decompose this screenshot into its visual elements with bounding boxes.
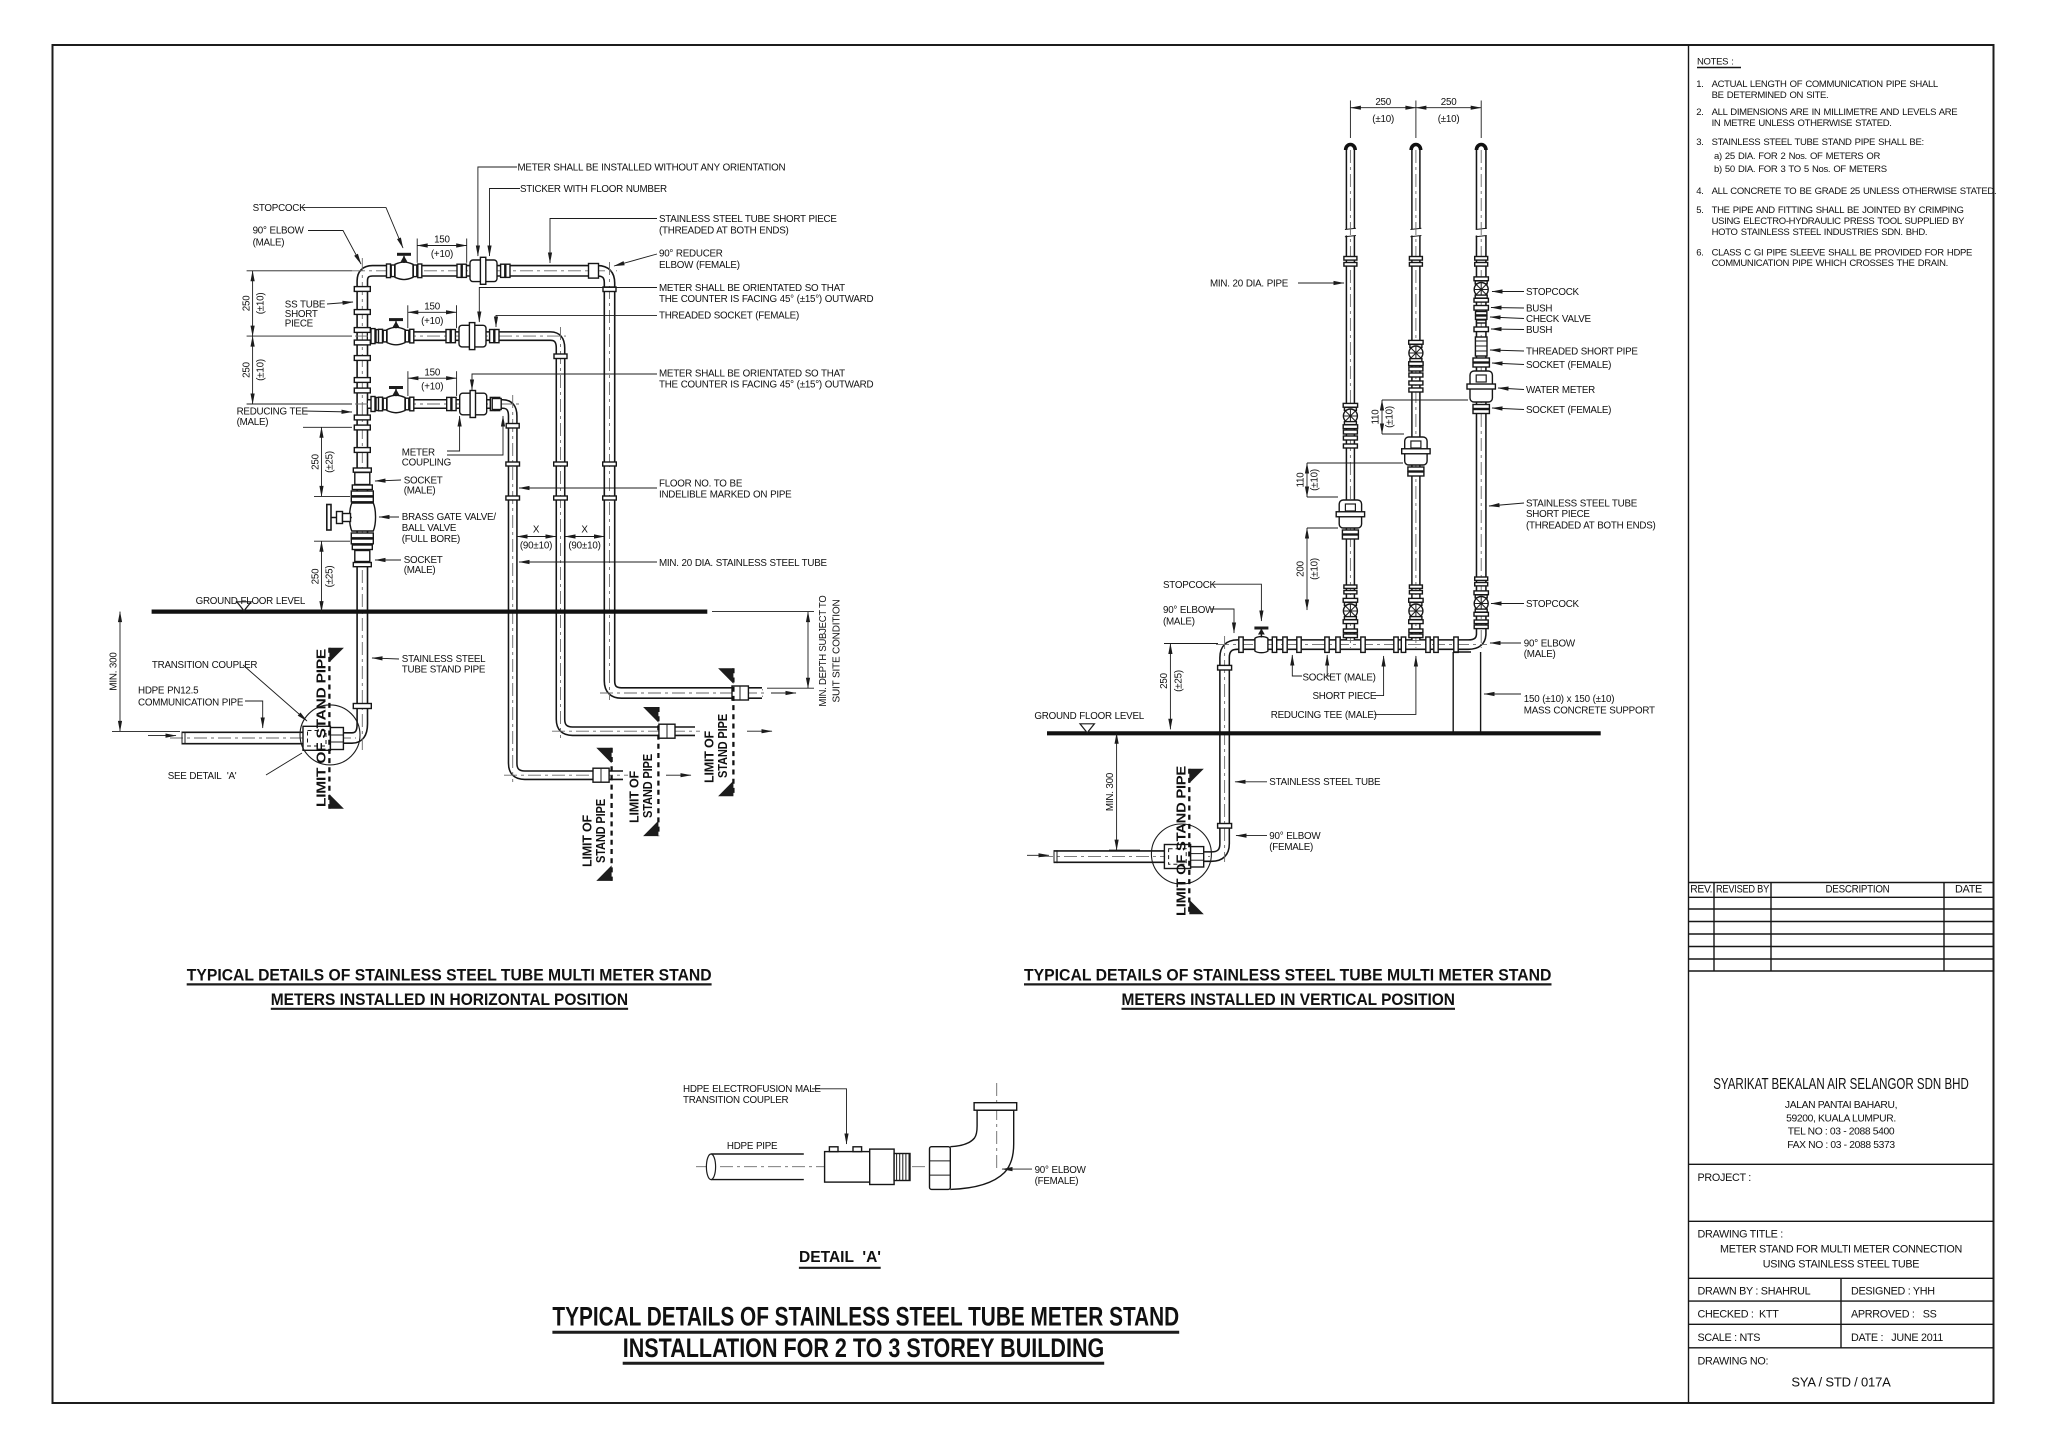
svg-text:METER STAND FOR MULTI METER CO: METER STAND FOR MULTI METER CONNECTION <box>1720 1243 1962 1255</box>
svg-text:ACTUAL LENGTH OF COMMUNICATION: ACTUAL LENGTH OF COMMUNICATION PIPE SHAL… <box>1712 79 1938 90</box>
svg-text:SUIT SITE CONDITION: SUIT SITE CONDITION <box>832 599 843 702</box>
svg-text:TYPICAL DETAILS OF STAINLESS S: TYPICAL DETAILS OF STAINLESS STEEL TUBE … <box>187 967 712 985</box>
svg-text:SYA / STD / 017A: SYA / STD / 017A <box>1791 1375 1891 1390</box>
svg-text:THREADED SHORT PIPE: THREADED SHORT PIPE <box>1526 347 1638 358</box>
svg-text:THE COUNTER IS FACING 45° (±15: THE COUNTER IS FACING 45° (±15°) OUTWARD <box>659 294 873 305</box>
svg-text:(FEMALE): (FEMALE) <box>1035 1176 1079 1187</box>
svg-text:REV.: REV. <box>1690 884 1712 896</box>
svg-text:TRANSITION COUPLER: TRANSITION COUPLER <box>683 1095 788 1106</box>
svg-text:PROJECT :: PROJECT : <box>1698 1172 1752 1184</box>
svg-text:IN METRE UNLESS OTHERWISE STAT: IN METRE UNLESS OTHERWISE STATED. <box>1712 118 1892 129</box>
svg-text:FLOOR NO. TO BE: FLOOR NO. TO BE <box>659 479 743 490</box>
svg-text:METER SHALL BE INSTALLED WITHO: METER SHALL BE INSTALLED WITHOUT ANY ORI… <box>518 163 786 174</box>
svg-text:59200, KUALA LUMPUR.: 59200, KUALA LUMPUR. <box>1786 1113 1896 1124</box>
svg-text:(MALE): (MALE) <box>237 417 269 428</box>
svg-text:250: 250 <box>1159 672 1170 688</box>
svg-text:150: 150 <box>434 235 450 246</box>
svg-text:b) 50 DIA. FOR 3 TO 5 Nos. OF: b) 50 DIA. FOR 3 TO 5 Nos. OF METERS <box>1714 164 1887 175</box>
svg-text:BALL VALVE: BALL VALVE <box>402 523 457 534</box>
svg-text:LIMIT OF STAND PIPE: LIMIT OF STAND PIPE <box>314 648 329 807</box>
svg-text:90° REDUCER: 90° REDUCER <box>659 249 723 260</box>
svg-text:250: 250 <box>310 568 321 584</box>
svg-text:250: 250 <box>241 295 252 311</box>
svg-text:CLASS C GI PIPE SLEEVE SHALL B: CLASS C GI PIPE SLEEVE SHALL BE PROVIDED… <box>1712 247 1972 258</box>
svg-text:THE PIPE AND FITTING SHALL BE: THE PIPE AND FITTING SHALL BE JOINTED BY… <box>1712 205 1964 216</box>
svg-text:DETAIL 'A': DETAIL 'A' <box>799 1249 881 1266</box>
svg-text:USING STAINLESS STEEL TUBE: USING STAINLESS STEEL TUBE <box>1763 1258 1919 1270</box>
svg-text:X: X <box>581 524 588 535</box>
svg-text:COMMUNICATION PIPE WHICH CROSS: COMMUNICATION PIPE WHICH CROSSES THE DRA… <box>1712 258 1948 269</box>
svg-text:TYPICAL DETAILS OF STAINLESS S: TYPICAL DETAILS OF STAINLESS STEEL TUBE … <box>1024 967 1552 985</box>
svg-text:DATE : JUNE 2011: DATE : JUNE 2011 <box>1851 1332 1943 1344</box>
svg-text:REDUCING TEE: REDUCING TEE <box>237 406 309 417</box>
svg-text:110: 110 <box>1370 409 1381 425</box>
svg-text:MIN. 20 DIA. STAINLESS STEEL T: MIN. 20 DIA. STAINLESS STEEL TUBE <box>659 558 828 569</box>
svg-text:CHECKED : KTT: CHECKED : KTT <box>1698 1309 1780 1321</box>
svg-text:MASS CONCRETE SUPPORT: MASS CONCRETE SUPPORT <box>1524 706 1655 717</box>
svg-text:(±10): (±10) <box>1372 114 1394 125</box>
svg-text:150: 150 <box>424 302 440 313</box>
svg-text:(FULL BORE): (FULL BORE) <box>402 534 460 545</box>
svg-text:SOCKET (FEMALE): SOCKET (FEMALE) <box>1526 405 1611 416</box>
svg-text:HDPE PIPE: HDPE PIPE <box>727 1141 778 1152</box>
svg-text:USING ELECTRO-HYDRAULIC PRESS: USING ELECTRO-HYDRAULIC PRESS TOOL SUPPL… <box>1712 216 1966 227</box>
svg-text:METER SHALL BE ORIENTATED SO T: METER SHALL BE ORIENTATED SO THAT <box>659 283 845 294</box>
svg-text:METERS INSTALLED IN VERTICAL P: METERS INSTALLED IN VERTICAL POSITION <box>1121 991 1455 1009</box>
svg-text:SEE DETAIL 'A': SEE DETAIL 'A' <box>168 771 237 782</box>
svg-text:250: 250 <box>241 361 252 377</box>
svg-text:150: 150 <box>424 367 440 378</box>
svg-text:TRANSITION COUPLER: TRANSITION COUPLER <box>152 660 257 671</box>
svg-text:BRASS GATE VALVE/: BRASS GATE VALVE/ <box>402 512 497 523</box>
svg-text:DRAWING NO:: DRAWING NO: <box>1698 1355 1769 1367</box>
svg-text:MIN. 20 DIA. PIPE: MIN. 20 DIA. PIPE <box>1210 279 1289 290</box>
svg-text:6.: 6. <box>1696 247 1703 258</box>
svg-text:STOPCOCK: STOPCOCK <box>253 203 307 214</box>
svg-text:BE DETERMINED ON SITE.: BE DETERMINED ON SITE. <box>1712 90 1829 101</box>
svg-text:(±10): (±10) <box>1310 558 1321 580</box>
svg-text:JALAN PANTAI BAHARU,: JALAN PANTAI BAHARU, <box>1785 1100 1897 1111</box>
svg-text:INSTALLATION FOR 2 TO 3 STOREY: INSTALLATION FOR 2 TO 3 STOREY BUILDING <box>623 1333 1105 1363</box>
svg-text:250: 250 <box>1441 97 1457 108</box>
svg-text:3.: 3. <box>1696 137 1703 148</box>
svg-text:90° ELBOW: 90° ELBOW <box>1163 605 1215 616</box>
svg-text:X: X <box>533 524 540 535</box>
svg-text:THREADED SOCKET (FEMALE): THREADED SOCKET (FEMALE) <box>659 311 799 322</box>
svg-text:200: 200 <box>1295 560 1306 576</box>
svg-text:4.: 4. <box>1696 186 1703 197</box>
svg-text:(+10): (+10) <box>421 316 443 327</box>
svg-text:5.: 5. <box>1696 205 1703 216</box>
svg-text:WATER METER: WATER METER <box>1526 385 1595 396</box>
svg-text:STAINLESS STEEL TUBE: STAINLESS STEEL TUBE <box>1269 777 1381 788</box>
svg-text:APRROVED : SS: APRROVED : SS <box>1851 1309 1937 1321</box>
svg-text:(FEMALE): (FEMALE) <box>1269 842 1313 853</box>
svg-text:DRAWN BY : SHAHRUL: DRAWN BY : SHAHRUL <box>1698 1286 1811 1298</box>
svg-text:BUSH: BUSH <box>1526 304 1552 315</box>
svg-text:NOTES :: NOTES : <box>1697 57 1734 68</box>
svg-text:HOTO STAINLESS STEEL INDUSTRIE: HOTO STAINLESS STEEL INDUSTRIES SDN. BHD… <box>1712 227 1928 238</box>
svg-text:GROUND FLOOR LEVEL: GROUND FLOOR LEVEL <box>196 596 306 607</box>
svg-text:(MALE): (MALE) <box>1524 649 1556 660</box>
svg-text:THE COUNTER IS FACING 45° (±15: THE COUNTER IS FACING 45° (±15°) OUTWARD <box>659 380 873 391</box>
svg-text:REDUCING TEE (MALE): REDUCING TEE (MALE) <box>1271 710 1377 721</box>
svg-text:SOCKET (FEMALE): SOCKET (FEMALE) <box>1526 360 1611 371</box>
svg-text:TEL NO : 03 - 2088 5400: TEL NO : 03 - 2088 5400 <box>1788 1127 1895 1138</box>
svg-text:DESCRIPTION: DESCRIPTION <box>1826 884 1890 896</box>
svg-text:(+10): (+10) <box>421 382 443 393</box>
svg-text:TUBE STAND PIPE: TUBE STAND PIPE <box>402 665 486 676</box>
svg-text:SHORT PIECE: SHORT PIECE <box>1313 691 1377 702</box>
svg-text:(±25): (±25) <box>1173 670 1184 692</box>
svg-text:GROUND FLOOR LEVEL: GROUND FLOOR LEVEL <box>1034 711 1144 722</box>
svg-text:STOPCOCK: STOPCOCK <box>1526 599 1580 610</box>
svg-text:90° ELBOW: 90° ELBOW <box>253 226 305 237</box>
svg-text:STAND PIPE: STAND PIPE <box>593 799 608 863</box>
svg-text:(90±10): (90±10) <box>520 540 552 551</box>
svg-text:STICKER WITH FLOOR NUMBER: STICKER WITH FLOOR NUMBER <box>520 184 667 195</box>
svg-text:2.: 2. <box>1696 107 1703 118</box>
svg-text:FAX NO : 03 - 2088 5373: FAX NO : 03 - 2088 5373 <box>1787 1140 1895 1151</box>
svg-text:250: 250 <box>310 453 321 469</box>
svg-text:INDELIBLE MARKED ON PIPE: INDELIBLE MARKED ON PIPE <box>659 490 792 501</box>
svg-text:BUSH: BUSH <box>1526 325 1552 336</box>
svg-text:PIECE: PIECE <box>285 319 314 330</box>
svg-text:(±10): (±10) <box>1438 114 1460 125</box>
svg-text:ELBOW (FEMALE): ELBOW (FEMALE) <box>659 260 740 271</box>
svg-text:DATE: DATE <box>1955 884 1982 896</box>
svg-text:1.: 1. <box>1696 79 1703 90</box>
svg-text:SHORT PIECE: SHORT PIECE <box>1526 509 1590 520</box>
svg-text:HDPE ELECTROFUSION MALE: HDPE ELECTROFUSION MALE <box>683 1084 821 1095</box>
svg-text:a) 25 DIA. FOR 2 Nos. OF METER: a) 25 DIA. FOR 2 Nos. OF METERS OR <box>1714 151 1880 162</box>
svg-text:REVISED BY: REVISED BY <box>1716 884 1769 896</box>
svg-text:250: 250 <box>1375 97 1391 108</box>
svg-text:(90±10): (90±10) <box>568 540 600 551</box>
svg-text:(±10): (±10) <box>1385 406 1396 428</box>
svg-text:(±10): (±10) <box>1310 469 1321 491</box>
svg-text:150 (±10) x 150 (±10): 150 (±10) x 150 (±10) <box>1524 694 1614 705</box>
svg-text:(MALE): (MALE) <box>1163 616 1195 627</box>
svg-text:STAINLESS STEEL TUBE STAND PIP: STAINLESS STEEL TUBE STAND PIPE SHALL BE… <box>1712 137 1924 148</box>
svg-text:(±10): (±10) <box>256 292 267 314</box>
svg-text:90° ELBOW: 90° ELBOW <box>1524 639 1576 650</box>
svg-text:STAND PIPE: STAND PIPE <box>715 714 730 778</box>
svg-text:MIN. 300: MIN. 300 <box>109 652 120 691</box>
svg-text:DESIGNED : YHH: DESIGNED : YHH <box>1851 1286 1935 1298</box>
svg-text:(±25): (±25) <box>325 566 336 588</box>
svg-text:CHECK VALVE: CHECK VALVE <box>1526 314 1592 325</box>
svg-text:STAND PIPE: STAND PIPE <box>640 754 655 818</box>
svg-text:TYPICAL DETAILS OF STAINLESS S: TYPICAL DETAILS OF STAINLESS STEEL TUBE … <box>552 1302 1179 1332</box>
svg-text:SYARIKAT BEKALAN AIR SELANGOR: SYARIKAT BEKALAN AIR SELANGOR SDN BHD <box>1713 1076 1969 1093</box>
svg-text:STAINLESS STEEL: STAINLESS STEEL <box>402 654 486 665</box>
svg-text:SCALE : NTS: SCALE : NTS <box>1698 1332 1761 1344</box>
svg-text:STAINLESS STEEL TUBE: STAINLESS STEEL TUBE <box>1526 499 1638 510</box>
svg-text:ALL CONCRETE TO BE GRADE 25 UN: ALL CONCRETE TO BE GRADE 25 UNLESS OTHER… <box>1712 186 1997 197</box>
svg-text:STOPCOCK: STOPCOCK <box>1163 580 1217 591</box>
svg-text:(THREADED AT BOTH ENDS): (THREADED AT BOTH ENDS) <box>659 226 789 237</box>
svg-text:ALL DIMENSIONS ARE IN MILLIMET: ALL DIMENSIONS ARE IN MILLIMETRE AND LEV… <box>1712 107 1958 118</box>
svg-text:90° ELBOW: 90° ELBOW <box>1035 1165 1087 1176</box>
svg-text:STOPCOCK: STOPCOCK <box>1526 287 1580 298</box>
svg-text:LIMIT OF STAND PIPE: LIMIT OF STAND PIPE <box>1173 765 1188 916</box>
svg-text:MIN. 300: MIN. 300 <box>1105 772 1116 811</box>
svg-text:(MALE): (MALE) <box>253 238 285 249</box>
svg-text:(+10): (+10) <box>431 249 453 260</box>
svg-text:DRAWING TITLE :: DRAWING TITLE : <box>1698 1228 1784 1240</box>
svg-text:110: 110 <box>1295 472 1306 488</box>
svg-text:(MALE): (MALE) <box>404 486 436 497</box>
svg-text:METER SHALL BE ORIENTATED SO T: METER SHALL BE ORIENTATED SO THAT <box>659 369 845 380</box>
svg-text:HDPE PN12.5: HDPE PN12.5 <box>138 685 199 696</box>
svg-text:MIN. DEPTH SUBJECT TO: MIN. DEPTH SUBJECT TO <box>818 595 829 707</box>
svg-text:(MALE): (MALE) <box>404 565 436 576</box>
svg-text:STAINLESS STEEL TUBE SHORT PIE: STAINLESS STEEL TUBE SHORT PIECE <box>659 214 837 225</box>
svg-text:COUPLING: COUPLING <box>402 458 451 469</box>
svg-text:(±25): (±25) <box>325 451 336 473</box>
svg-text:COMMUNICATION PIPE: COMMUNICATION PIPE <box>138 697 244 708</box>
svg-text:METERS INSTALLED IN HORIZONTAL: METERS INSTALLED IN HORIZONTAL POSITION <box>271 991 628 1009</box>
svg-text:(THREADED AT BOTH ENDS): (THREADED AT BOTH ENDS) <box>1526 521 1656 532</box>
svg-text:(±10): (±10) <box>256 359 267 381</box>
svg-text:90° ELBOW: 90° ELBOW <box>1269 831 1321 842</box>
svg-text:SOCKET (MALE): SOCKET (MALE) <box>1303 672 1376 683</box>
